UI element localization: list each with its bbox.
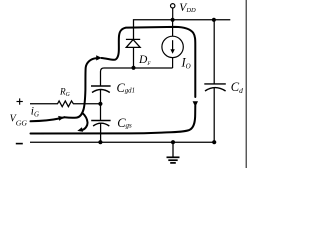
capacitor Cd — [204, 84, 226, 91]
wire ground bus — [30, 141, 216, 143]
wire drain — [101, 68, 173, 86]
svg-text:Cgs: Cgs — [117, 116, 132, 130]
arrowhead right leg down — [193, 101, 198, 107]
wire current path swoosh — [31, 27, 196, 134]
arrowhead curl into return — [77, 127, 83, 131]
node junction ground/bus — [171, 140, 175, 144]
arrowhead drain direction — [96, 55, 102, 60]
ground — [167, 142, 180, 163]
svg-text:iG: iG — [31, 106, 39, 119]
resistor RG — [30, 101, 100, 107]
node VDD terminal — [171, 4, 175, 20]
svg-text:Cgd1: Cgd1 — [117, 81, 135, 95]
node gate junction — [98, 102, 102, 106]
wire Cgs to ground bus — [100, 124, 102, 143]
svg-text:DF: DF — [138, 54, 151, 67]
svg-text:RG: RG — [59, 87, 71, 98]
svg-text:VDD: VDD — [179, 2, 196, 14]
svg-text:Cd: Cd — [231, 80, 243, 95]
terminal minus — [16, 143, 23, 145]
svg-text:IO: IO — [181, 55, 191, 70]
node junction Cgs/bus — [98, 140, 102, 144]
current source IO — [162, 20, 183, 68]
capacitor Cgs — [91, 121, 110, 127]
terminal plus — [17, 98, 23, 104]
svg-text:VGG: VGG — [10, 114, 28, 128]
arrowhead iG direction — [58, 116, 64, 121]
diode DF — [126, 39, 140, 67]
capacitor Cgd1 — [91, 86, 111, 93]
wire gate vertical — [100, 90, 102, 121]
node junction bus/Cd — [212, 18, 216, 22]
wire VDD bus — [134, 20, 231, 40]
node junction Cd/bus — [212, 140, 216, 144]
page edge line — [245, 0, 247, 168]
node drain/diode junction — [131, 66, 135, 70]
node junction bus/IO — [171, 18, 175, 22]
